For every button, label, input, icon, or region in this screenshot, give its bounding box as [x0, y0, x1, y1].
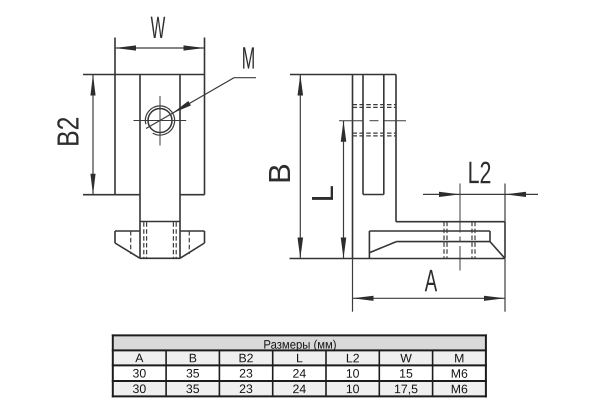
hidden hole lines in upright [353, 105, 397, 136]
svg-text:30: 30 [133, 382, 147, 396]
svg-text:15: 15 [399, 367, 413, 381]
svg-text:24: 24 [293, 382, 307, 396]
svg-text:M: M [454, 351, 464, 365]
block top edge (with B2 extension line) [83, 74, 205, 76]
flange left chamfer [369, 242, 396, 253]
hole centerline horizontal [339, 120, 406, 122]
svg-text:W: W [151, 11, 166, 45]
W dimension [115, 47, 205, 49]
slot right wall [383, 75, 385, 195]
svg-text:10: 10 [346, 367, 360, 381]
left edge [352, 75, 354, 259]
T-head left outer edge [114, 231, 116, 243]
svg-text:L2: L2 [346, 351, 360, 365]
svg-text:B: B [189, 351, 197, 365]
flange chamfer edge line [396, 241, 490, 243]
leg hole centerline vertical [459, 184, 461, 271]
slot bottom [363, 194, 384, 196]
svg-text:W: W [400, 351, 412, 365]
svg-text:L: L [296, 351, 303, 365]
L2 dimension [423, 184, 538, 222]
flange right chamfer [490, 242, 505, 259]
slot left wall [362, 75, 364, 195]
svg-text:L: L [305, 185, 340, 202]
hidden hole lines in leg [444, 222, 475, 258]
svg-text:A: A [135, 351, 144, 365]
M leader arrowhead [172, 101, 191, 113]
table grid horizontals [112, 335, 487, 396]
data row 1 [133, 366, 468, 380]
svg-text:23: 23 [239, 367, 253, 381]
svg-text:24: 24 [293, 367, 307, 381]
block bottom edge right part [180, 194, 205, 196]
column headers [135, 351, 464, 365]
flange right step [489, 231, 491, 242]
A dimension [353, 259, 506, 312]
svg-text:A: A [425, 265, 437, 299]
data row 2 [133, 382, 468, 396]
column header row background [114, 350, 485, 365]
M leader line [146, 78, 256, 129]
L dimension [343, 121, 345, 259]
B2 dimension [92, 75, 94, 195]
bottom edge (with B / L extension line) [290, 258, 506, 260]
hidden thread lines in T-head [131, 222, 190, 258]
T-head bottom edge [140, 257, 180, 259]
threaded hole circle M [148, 109, 172, 133]
svg-text:M6: M6 [451, 367, 468, 381]
svg-text:Размеры (мм): Размеры (мм) [263, 337, 336, 352]
block right side (with W extension above) [204, 38, 206, 195]
svg-text:M6: M6 [451, 382, 468, 396]
flange top edge [369, 230, 490, 232]
svg-text:B2: B2 [51, 117, 85, 147]
B dimension [299, 75, 301, 259]
T-head left chamfer [115, 243, 140, 258]
table header background [114, 336, 485, 349]
block bottom edge left part (with B2 extension line) [83, 194, 140, 196]
leg right edge [504, 222, 506, 259]
table inner verticals [166, 350, 433, 396]
table outer verticals [113, 334, 486, 397]
svg-text:B: B [262, 163, 297, 184]
neck line [140, 221, 180, 223]
inner vertical / column right side [179, 75, 181, 259]
hole centerlines (crosshair) [134, 96, 187, 146]
block left side (with W extension above) [114, 38, 116, 195]
T-head right wing top [180, 230, 205, 232]
T-head right chamfer [180, 243, 205, 258]
top edge (with B extension line) [290, 74, 396, 76]
leg top edge [396, 221, 505, 223]
inner vertical / column left side [139, 75, 141, 259]
bottom data row background [114, 381, 485, 396]
svg-text:35: 35 [186, 367, 200, 381]
svg-text:M: M [242, 42, 255, 76]
upright right edge [395, 75, 397, 222]
svg-text:23: 23 [239, 382, 253, 396]
thread arc [145, 106, 174, 135]
svg-text:30: 30 [133, 366, 147, 380]
svg-text:10: 10 [346, 382, 360, 396]
T-head left wing top [115, 230, 140, 232]
svg-text:17,5: 17,5 [394, 382, 418, 396]
svg-text:B2: B2 [238, 351, 253, 365]
svg-text:35: 35 [186, 382, 200, 396]
svg-text:L2: L2 [468, 155, 492, 190]
flange left edge [368, 231, 370, 259]
T-head right outer edge [204, 231, 206, 243]
